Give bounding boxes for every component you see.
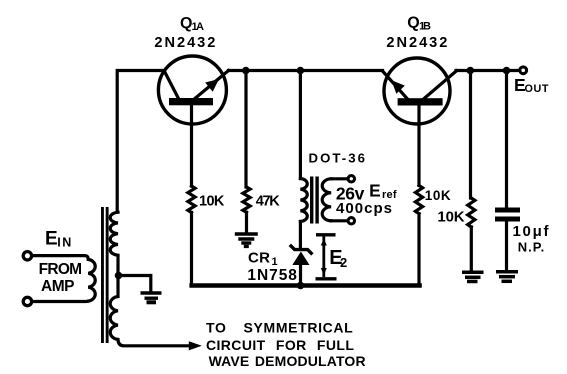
wire 10K right top lead [469, 71, 472, 199]
wire secondary bottom to terminal [331, 219, 347, 222]
svg-text:2N2432: 2N2432 [386, 35, 447, 51]
svg-text:10K: 10K [437, 209, 464, 226]
capacitor 10uf plates [495, 208, 520, 222]
svg-text:N.P.: N.P. [518, 239, 545, 254]
transformer DOT-36 primary winding [300, 179, 307, 222]
svg-text:47K: 47K [256, 193, 281, 209]
label Q1B [407, 15, 431, 33]
terminal DOT-36 bottom [348, 218, 354, 224]
resistor 47K [243, 187, 250, 212]
label E_OUT [514, 75, 549, 95]
wire 10K Q1B to bottom rail [417, 214, 420, 284]
annotation E2 arrow line [321, 237, 327, 278]
wire zener to bottom rail [299, 265, 302, 287]
node junction zener bottom rail [297, 282, 305, 290]
wire 10K to bottom rail [190, 213, 193, 285]
svg-text:CIRCUIT FOR FULL: CIRCUIT FOR FULL [206, 337, 354, 353]
resistor 10K (right, to ground) [468, 198, 475, 227]
svg-text:1A: 1A [192, 21, 205, 33]
svg-text:Q: Q [407, 15, 419, 32]
wire rail Q1A to Q1B [229, 69, 383, 72]
wire DOT-36 top lead [299, 71, 302, 179]
svg-text:400cps: 400cps [336, 200, 392, 217]
diode CR1 zener cathode bar [290, 245, 313, 255]
terminal DOT-36 top [348, 176, 354, 182]
terminal E_OUT [520, 67, 527, 74]
svg-text:E: E [369, 180, 381, 200]
svg-text:OUT: OUT [525, 83, 549, 95]
resistor 10K (under Q1A) [188, 186, 195, 213]
svg-text:1N758: 1N758 [247, 267, 297, 284]
transformer DOT-36 secondary winding [322, 179, 331, 221]
svg-text:1B: 1B [419, 21, 431, 33]
wire capacitor top lead [505, 71, 508, 208]
ground under 10K right [462, 272, 484, 281]
wire capacitor bottom lead [505, 222, 508, 271]
node junction above 10K right [467, 67, 475, 75]
svg-text:WAVE DEMODULATOR: WAVE DEMODULATOR [209, 353, 366, 369]
label E_ref [369, 180, 397, 201]
annotation E2 bottom bar [316, 277, 337, 280]
svg-text:DOT-36: DOT-36 [309, 150, 366, 165]
transformer T1 secondary top winding [110, 212, 118, 275]
ground under 47K [235, 234, 258, 246]
wire 10K right bottom lead [470, 227, 473, 271]
ground at T1 center tap [141, 293, 162, 302]
svg-text:2N2432: 2N2432 [154, 35, 215, 51]
wire secondary top to terminal [331, 177, 347, 180]
terminal E_IN bottom [23, 297, 31, 305]
ground under capacitor [496, 272, 518, 282]
wire left vertical and top-left rail [117, 71, 164, 213]
transformer T1 secondary bottom winding [110, 276, 189, 346]
wire 47K bottom lead [245, 212, 248, 232]
resistor 10K (under Q1B) [415, 185, 422, 213]
svg-text:AMP: AMP [41, 278, 75, 295]
svg-text:10K: 10K [199, 194, 225, 210]
transformer DOT-36 core [310, 177, 319, 224]
label CR1 [248, 250, 278, 268]
svg-text:2: 2 [340, 255, 347, 270]
svg-text:E: E [45, 229, 58, 250]
svg-text:10μf: 10μf [513, 223, 550, 240]
svg-text:IN: IN [57, 236, 71, 250]
svg-text:TO SYMMETRICAL: TO SYMMETRICAL [206, 320, 353, 336]
transformer T1 core [101, 207, 109, 343]
svg-text:1: 1 [272, 256, 278, 268]
label E2 [329, 247, 347, 270]
wire bottom rail [189, 283, 421, 288]
node junction above capacitor [503, 67, 511, 75]
transistor Q1B [383, 58, 457, 124]
wire Q1A base lead [190, 105, 193, 186]
wire rail Q1B to output [456, 69, 519, 72]
svg-text:FROM: FROM [39, 261, 83, 278]
label Q1A [180, 15, 204, 33]
svg-text:10K: 10K [425, 188, 451, 203]
node junction above 47K [242, 67, 250, 75]
node junction above DOT-36 [297, 67, 305, 75]
label E_IN [45, 229, 71, 250]
wire 47K top lead [244, 71, 247, 188]
annotation E2 top bar [316, 233, 336, 236]
transistor Q1A [158, 56, 228, 124]
node T1 center tap [115, 272, 123, 280]
svg-text:CR: CR [248, 250, 270, 267]
diode CR1 zener triangle [292, 252, 309, 266]
transformer T1 primary winding [34, 256, 95, 302]
wire center tap to ground [119, 276, 151, 292]
terminal E_IN top [23, 252, 31, 260]
wire DOT-36 to zener [299, 222, 302, 249]
wire Q1B base lead [417, 106, 420, 186]
arrowhead to symmetrical circuit [189, 341, 202, 350]
